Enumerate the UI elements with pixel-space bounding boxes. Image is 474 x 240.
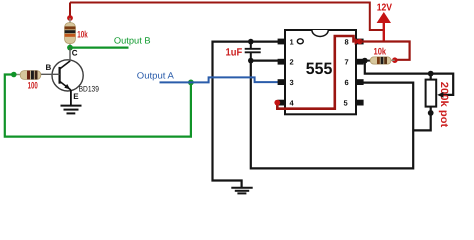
svg-text:1: 1 <box>290 37 294 46</box>
wire: Output A (blue, pin 3) <box>160 77 279 82</box>
node: R1 top terminal dot <box>67 15 73 21</box>
svg-text:BD139: BD139 <box>79 85 100 94</box>
transistor Q1 BD139 <box>52 48 83 106</box>
svg-text:C: C <box>72 49 78 58</box>
svg-text:200k pot: 200k pot <box>438 82 450 128</box>
node: R3 right terminal dot (red) <box>392 57 398 63</box>
svg-text:12V: 12V <box>377 2 393 13</box>
resistor R3 10k (horizontal) <box>364 57 395 64</box>
wire: rail drop to R1 <box>69 3 71 19</box>
svg-text:Output B: Output B <box>114 35 151 45</box>
svg-text:2: 2 <box>290 58 294 67</box>
pin 2 stub <box>278 59 286 65</box>
pin 6 stub <box>356 79 364 85</box>
svg-text:8: 8 <box>345 37 349 46</box>
resistor R1 10k (vertical) <box>65 18 76 48</box>
node: pot bottom terminal dot <box>428 110 434 116</box>
wire: green base-drive loop <box>5 75 191 137</box>
node: pin 8 dot (red) <box>357 39 362 44</box>
svg-text:100: 100 <box>28 81 38 92</box>
pin 3 stub <box>278 79 286 85</box>
node: pot top junction dot <box>428 71 434 77</box>
wire: internal reset strap pin4 to pin8 (red) <box>277 36 354 109</box>
capacitor C1 1uF <box>245 42 261 61</box>
ground: Q1 emitter ground <box>61 106 82 114</box>
pin 7 stub <box>356 59 364 65</box>
pin 8 stub <box>356 39 364 45</box>
svg-text:10k: 10k <box>77 29 88 40</box>
ground: main circuit ground <box>231 188 252 194</box>
svg-text:B: B <box>46 63 52 72</box>
resistor R2 100 (horizontal) <box>14 71 60 80</box>
wire: pot bottom jog <box>413 107 431 131</box>
svg-text:7: 7 <box>345 58 349 67</box>
wire: pot top stub <box>430 74 432 80</box>
wire: pin7 to pot top and wiper <box>365 61 453 95</box>
wiper arrow <box>437 92 443 98</box>
svg-text:5: 5 <box>344 98 348 107</box>
node C: collector junction dot <box>67 45 73 51</box>
wire: pin1 to ground run <box>213 42 279 188</box>
svg-text:1uF: 1uF <box>226 47 243 59</box>
pin 4 stub <box>278 100 286 106</box>
pin 5 stub <box>356 100 364 106</box>
wire: Output B stub <box>70 46 129 48</box>
pin 1 stub <box>278 39 286 45</box>
node: junction on Output A <box>188 80 194 86</box>
potentiometer VR1 body <box>426 80 437 107</box>
svg-text:555: 555 <box>306 60 333 78</box>
power: 12V supply arrow <box>383 21 385 42</box>
555 IC body U1 <box>285 30 356 114</box>
svg-text:3: 3 <box>290 78 294 87</box>
svg-text:10k: 10k <box>374 47 387 58</box>
wire: pin8 to 12V / R3 (red) <box>360 42 410 60</box>
wire: trigger/threshold net (cap to pin6) <box>251 61 413 169</box>
node: pin 7 junction dot <box>362 58 368 64</box>
wire: pin2 stub <box>251 59 278 61</box>
node: base net end dot <box>11 72 17 78</box>
wire: +12V top rail <box>70 3 384 31</box>
svg-text:6: 6 <box>345 78 349 87</box>
svg-text:Output A: Output A <box>137 70 174 80</box>
node: cap top junction <box>248 39 254 45</box>
node: cap bottom junction <box>248 58 254 64</box>
node: pin 4 dot (red) <box>274 100 280 106</box>
